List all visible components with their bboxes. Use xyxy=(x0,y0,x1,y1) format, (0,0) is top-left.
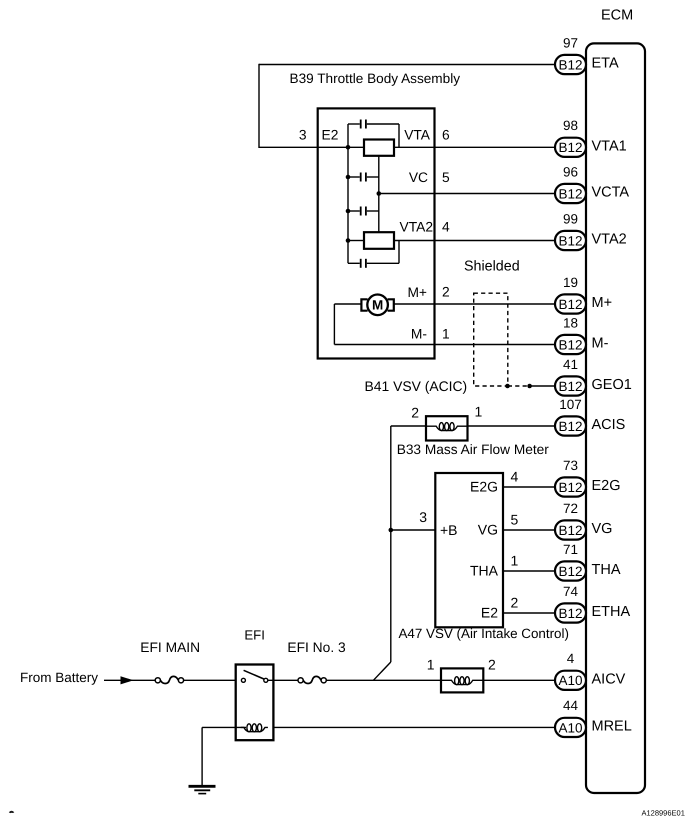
svg-text:4: 4 xyxy=(511,469,519,485)
svg-text:AICV: AICV xyxy=(592,671,626,687)
svg-text:VTA2: VTA2 xyxy=(592,232,627,248)
svg-text:MREL: MREL xyxy=(592,718,632,734)
svg-text:E2: E2 xyxy=(322,127,339,142)
svg-text:5: 5 xyxy=(511,512,519,528)
svg-text:4: 4 xyxy=(442,220,450,235)
svg-text:A128996E01: A128996E01 xyxy=(642,809,685,818)
svg-text:99: 99 xyxy=(563,211,578,226)
svg-text:GEO1: GEO1 xyxy=(592,377,632,393)
svg-text:1: 1 xyxy=(427,657,435,673)
svg-text:B12: B12 xyxy=(558,233,582,248)
svg-text:B33 Mass Air Flow Meter: B33 Mass Air Flow Meter xyxy=(397,442,550,457)
svg-text:1: 1 xyxy=(475,404,483,420)
svg-text:1: 1 xyxy=(442,327,450,342)
svg-text:THA: THA xyxy=(592,562,621,578)
svg-text:2: 2 xyxy=(411,405,419,421)
svg-text:+B: +B xyxy=(440,522,458,538)
svg-text:B12: B12 xyxy=(558,606,582,621)
svg-text:98: 98 xyxy=(563,118,578,133)
svg-text:E2: E2 xyxy=(481,605,498,621)
svg-text:2: 2 xyxy=(488,657,496,673)
svg-text:3: 3 xyxy=(419,509,427,525)
svg-text:1: 1 xyxy=(511,553,519,569)
svg-text:B12: B12 xyxy=(558,523,582,538)
svg-text:VTA1: VTA1 xyxy=(592,138,627,154)
svg-text:VG: VG xyxy=(478,522,498,538)
svg-text:B12: B12 xyxy=(558,419,582,434)
svg-text:B41 VSV (ACIC): B41 VSV (ACIC) xyxy=(365,378,468,394)
svg-text:M+: M+ xyxy=(407,285,427,300)
svg-text:18: 18 xyxy=(563,315,578,330)
svg-text:VC: VC xyxy=(409,170,428,185)
svg-text:B12: B12 xyxy=(558,379,582,394)
svg-text:2: 2 xyxy=(511,595,519,611)
svg-text:ETA: ETA xyxy=(592,56,619,72)
svg-text:B39 Throttle Body Assembly: B39 Throttle Body Assembly xyxy=(290,71,461,86)
svg-text:2: 2 xyxy=(442,285,450,300)
svg-text:6: 6 xyxy=(442,127,450,142)
svg-text:B12: B12 xyxy=(558,480,582,495)
svg-text:E2G: E2G xyxy=(470,479,498,495)
svg-text:VTA: VTA xyxy=(404,127,431,142)
svg-text:B12: B12 xyxy=(558,57,582,72)
svg-text:B12: B12 xyxy=(558,140,582,155)
svg-text:VTA2: VTA2 xyxy=(400,220,433,235)
svg-text:EFI No. 3: EFI No. 3 xyxy=(287,640,346,655)
svg-text:73: 73 xyxy=(563,458,578,473)
svg-text:97: 97 xyxy=(563,35,578,50)
svg-text:E2G: E2G xyxy=(592,478,621,494)
svg-text:B12: B12 xyxy=(558,186,582,201)
svg-text:M-: M- xyxy=(592,336,609,352)
svg-text:96: 96 xyxy=(563,164,578,179)
svg-text:72: 72 xyxy=(563,501,578,516)
svg-text:3: 3 xyxy=(299,127,307,142)
svg-text:From Battery: From Battery xyxy=(20,670,98,685)
svg-text:EFI MAIN: EFI MAIN xyxy=(140,640,200,655)
svg-text:41: 41 xyxy=(563,357,578,372)
svg-text:B12: B12 xyxy=(558,297,582,312)
svg-text:Shielded: Shielded xyxy=(464,259,520,275)
svg-text:74: 74 xyxy=(563,584,579,599)
svg-text:EFI: EFI xyxy=(244,627,265,642)
svg-text:ACIS: ACIS xyxy=(592,417,626,433)
svg-text:A10: A10 xyxy=(558,720,582,735)
svg-text:M-: M- xyxy=(411,327,427,342)
svg-text:M+: M+ xyxy=(592,295,613,311)
svg-text:THA: THA xyxy=(470,563,499,579)
svg-text:44: 44 xyxy=(563,698,579,713)
svg-text:ETHA: ETHA xyxy=(592,604,631,620)
svg-text:VCTA: VCTA xyxy=(592,185,630,201)
svg-text:71: 71 xyxy=(563,542,578,557)
svg-text:M: M xyxy=(372,298,383,313)
svg-text:A47 VSV (Air Intake Control): A47 VSV (Air Intake Control) xyxy=(399,626,569,641)
svg-text:107: 107 xyxy=(559,397,582,412)
svg-text:4: 4 xyxy=(567,651,575,666)
svg-text:A10: A10 xyxy=(558,673,582,688)
svg-text:ECM: ECM xyxy=(601,8,633,24)
svg-text:B12: B12 xyxy=(558,337,582,352)
svg-text:5: 5 xyxy=(442,170,450,185)
svg-text:19: 19 xyxy=(563,275,578,290)
svg-text:B12: B12 xyxy=(558,564,582,579)
svg-text:VG: VG xyxy=(592,521,613,537)
